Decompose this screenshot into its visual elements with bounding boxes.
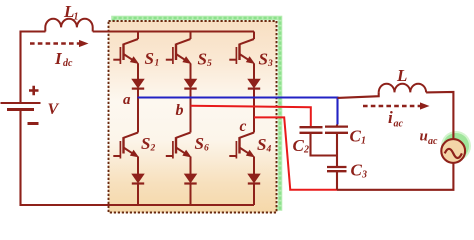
svg-text:i: i [388,108,393,127]
svg-text:V: V [48,101,60,118]
svg-text:S: S [257,135,266,154]
svg-text:2: 2 [150,144,156,154]
svg-text:u: u [420,129,428,145]
svg-text:b: b [176,102,184,119]
svg-text:S: S [259,50,268,69]
svg-text:a: a [123,92,131,108]
svg-text:3: 3 [267,59,273,69]
svg-text:2: 2 [303,145,309,156]
svg-text:1: 1 [74,12,79,23]
svg-text:4: 4 [266,145,272,155]
svg-text:ac: ac [394,119,404,130]
svg-text:5: 5 [207,59,212,69]
svg-text:S: S [145,49,154,68]
svg-text:3: 3 [361,170,367,181]
svg-text:S: S [141,134,150,153]
svg-text:ac: ac [428,136,438,147]
svg-text:C: C [293,136,305,155]
svg-text:6: 6 [204,144,209,154]
svg-text:1: 1 [361,136,366,147]
svg-text:C: C [350,127,362,146]
svg-text:I: I [54,49,63,68]
svg-text:S: S [198,50,207,69]
svg-text:C: C [351,161,363,180]
svg-text:c: c [240,118,247,135]
svg-text:S: S [195,134,204,153]
svg-text:1: 1 [155,59,160,69]
svg-text:L: L [396,66,407,85]
svg-text:dc: dc [63,58,73,69]
